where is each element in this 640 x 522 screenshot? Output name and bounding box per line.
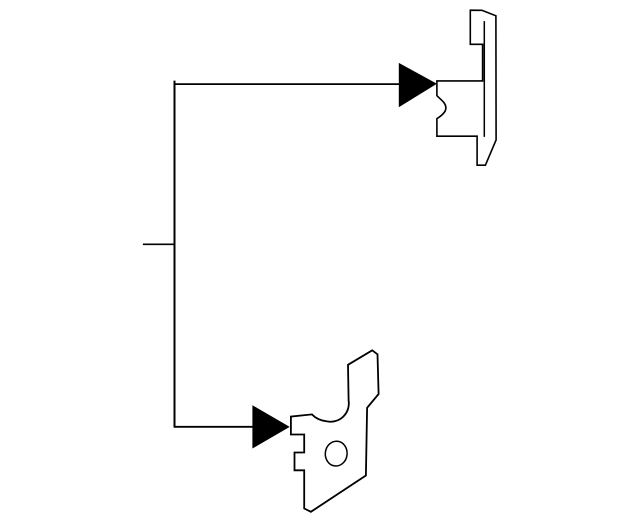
part U2 outline (bottom plate profile) [291, 350, 379, 512]
wire bottom horizontal leader [174, 426, 253, 428]
arrowhead bottom [252, 405, 289, 448]
part U1 inner fold line [483, 21, 485, 137]
wire top horizontal leader [174, 83, 400, 85]
wire vertical leader [174, 81, 176, 427]
arrowhead top [399, 63, 437, 107]
part U1 outline (top-right clip profile) [437, 10, 496, 165]
hole in part U2 [324, 440, 348, 467]
wire left tick [143, 243, 174, 245]
